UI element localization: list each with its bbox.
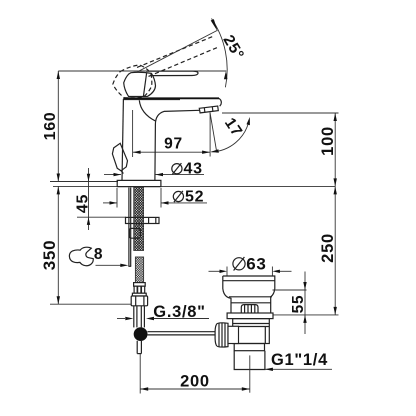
dim 350 line xyxy=(57,186,59,304)
svg-text:G1"1/4: G1"1/4 xyxy=(271,351,328,369)
handle knob dashed (open position) xyxy=(113,65,152,98)
spout level extension line xyxy=(222,112,339,114)
body outline left xyxy=(122,99,123,181)
threaded shank with hose xyxy=(117,187,216,353)
svg-text:55: 55 xyxy=(290,295,307,314)
svg-text:G.3/8": G.3/8" xyxy=(153,303,205,321)
dim 200 xyxy=(140,354,250,394)
mounting washer xyxy=(126,217,160,223)
dim 45 extension line bottom xyxy=(77,216,126,218)
dim 250 line xyxy=(334,186,336,315)
dim 45 line xyxy=(88,168,90,230)
pop-up horizontal rod xyxy=(147,331,215,333)
body dome line xyxy=(139,100,155,121)
base plate xyxy=(117,180,161,186)
dim Ø52 extension lines xyxy=(116,188,118,208)
drain bell top xyxy=(223,276,275,313)
dim Ø63 line xyxy=(209,270,221,272)
drain flange xyxy=(227,313,273,319)
dim Ø63 extension lines xyxy=(226,267,228,277)
wire xyxy=(40,71,335,304)
dim Ø43 line xyxy=(104,174,121,176)
drain pop-up waste assembly xyxy=(209,254,339,371)
faucet handle lever closed xyxy=(113,36,217,98)
drain tail pipe xyxy=(234,351,265,370)
dim 100 line xyxy=(334,113,336,186)
svg-text:63: 63 xyxy=(246,254,266,273)
svg-text:97: 97 xyxy=(164,136,183,153)
25 degree arc xyxy=(212,19,228,88)
25 degree reference line xyxy=(138,19,248,88)
svg-text:8: 8 xyxy=(94,246,103,263)
dim Ø43 label xyxy=(172,164,182,174)
dim Ø52 label xyxy=(173,191,183,201)
dim 350 extension line bottom xyxy=(50,303,131,305)
dim 160 extension line bottom xyxy=(50,181,118,183)
svg-text:100: 100 xyxy=(319,126,337,156)
svg-text:250: 250 xyxy=(319,233,337,263)
wrench leader line xyxy=(96,264,125,266)
wrench icon xyxy=(69,247,93,266)
pop-up rod lever knob xyxy=(112,143,127,171)
deck extension line xyxy=(53,185,335,187)
tail pipe xyxy=(134,306,145,328)
dim 55 extension lines xyxy=(273,289,307,291)
G1 1/4 leader line xyxy=(265,368,332,370)
spout outlet slant line xyxy=(209,113,211,157)
svg-text:200: 200 xyxy=(180,373,210,391)
svg-text:45: 45 xyxy=(75,194,92,213)
svg-text:350: 350 xyxy=(40,240,59,270)
17 degree arc xyxy=(211,120,249,152)
dim 97 line xyxy=(133,151,211,153)
spout nose xyxy=(219,98,221,106)
ball joint xyxy=(134,327,148,341)
dim 97 extension line xyxy=(132,110,134,157)
dim G3/8 arrows xyxy=(117,318,125,320)
hose ferrule xyxy=(134,283,146,294)
aerator xyxy=(199,106,218,113)
right dimensions xyxy=(222,113,339,315)
handle lever dashed (open position) xyxy=(137,36,215,68)
rod below ball xyxy=(136,341,138,354)
body outline right / spout underside xyxy=(155,110,200,180)
drain body xyxy=(233,319,270,344)
hose nut G3/8 xyxy=(131,293,147,306)
drain body lower xyxy=(234,344,264,351)
dim 55 line xyxy=(304,272,306,335)
dim Ø63 label xyxy=(233,258,245,270)
dim 160 extension line top xyxy=(58,70,226,72)
faucet body xyxy=(112,98,250,186)
dim 160 line xyxy=(57,71,59,182)
rod clamp xyxy=(129,228,140,238)
dim Ø52 line xyxy=(103,202,117,204)
svg-text:52: 52 xyxy=(185,188,204,205)
flexible hose braided segment xyxy=(135,257,143,283)
drain knurled side nut xyxy=(215,323,238,348)
drain knurled cap xyxy=(241,305,258,313)
svg-text:43: 43 xyxy=(184,160,203,177)
svg-text:160: 160 xyxy=(42,112,59,141)
handle knob solid xyxy=(124,72,156,96)
